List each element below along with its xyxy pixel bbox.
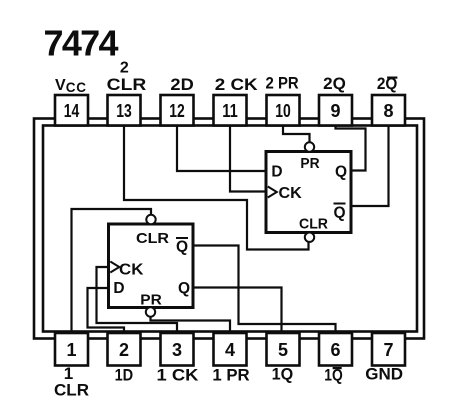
package outline [34, 119, 424, 339]
pin 4 [214, 333, 247, 366]
svg-text:1D: 1D [115, 366, 134, 385]
svg-text:7: 7 [383, 340, 393, 360]
pin label VCC [55, 77, 87, 95]
U2 PR bubble [305, 142, 314, 151]
svg-text:2D: 2D [170, 75, 193, 94]
svg-text:D: D [271, 164, 282, 181]
svg-text:CC: CC [66, 80, 87, 95]
svg-text:CLR: CLR [299, 216, 328, 233]
wire pin1 to FF1 CLR [72, 209, 152, 333]
pin 9 [319, 95, 352, 126]
pin 13 [108, 95, 141, 126]
svg-text:2 PR: 2 PR [266, 74, 299, 93]
wire pin10 to FF2 PR [283, 125, 310, 143]
svg-text:10: 10 [275, 101, 291, 121]
svg-text:1 CK: 1 CK [157, 366, 200, 385]
pin 6 [319, 333, 352, 366]
svg-text:1: 1 [66, 340, 76, 360]
svg-text:PR: PR [140, 292, 162, 309]
svg-text:D: D [113, 280, 124, 297]
flip-flop U1 body [109, 224, 194, 308]
U1 CLR bubble [146, 215, 155, 224]
svg-text:2Q: 2Q [323, 74, 346, 93]
wire pin13 to FF2 CLR [124, 125, 309, 250]
wire pin9 to FF2 Q [336, 125, 366, 171]
U1 PR bubble [146, 307, 155, 316]
svg-text:CLR: CLR [54, 381, 89, 400]
svg-text:7474: 7474 [44, 23, 119, 64]
pin 10 [267, 95, 300, 126]
U2 label Qbar [333, 204, 345, 222]
svg-text:12: 12 [169, 101, 185, 121]
svg-text:1Q: 1Q [272, 365, 294, 384]
U2 CLR bubble [305, 233, 314, 242]
IC body [43, 126, 417, 332]
flip-flop U2 body [266, 152, 351, 233]
svg-text:5: 5 [278, 340, 288, 360]
pin 12 [161, 95, 194, 126]
wire pin3 to FF1 CK [97, 267, 178, 333]
svg-text:PR: PR [300, 155, 319, 172]
svg-text:2 CK: 2 CK [215, 75, 259, 94]
pin 14 [55, 95, 88, 126]
svg-text:2: 2 [119, 340, 129, 360]
svg-text:13: 13 [116, 101, 132, 121]
wire pin8 to FF2 Qbar [352, 125, 389, 206]
svg-text:Q: Q [176, 239, 188, 256]
svg-text:6: 6 [330, 340, 340, 360]
svg-text:CK: CK [279, 185, 303, 202]
pin 1 [55, 333, 88, 366]
svg-text:Q: Q [335, 164, 347, 181]
svg-text:11: 11 [222, 101, 238, 121]
svg-text:14: 14 [64, 101, 80, 121]
pin label 2Qbar [377, 74, 398, 93]
wire FF1 Q to pin5 [193, 288, 282, 334]
pin 8 [372, 95, 405, 126]
wire pin2 to FF1 D [88, 288, 125, 333]
pin 2 [108, 333, 141, 366]
pin 7 [372, 333, 405, 366]
svg-text:1 PR: 1 PR [212, 366, 249, 385]
pin label 1Qbar [324, 366, 343, 385]
wire FF1 Qbar to pin6 [193, 246, 336, 334]
wire pin12 to FF2 D [177, 125, 265, 171]
wire pin11 to FF2 CK [230, 125, 265, 192]
svg-text:V: V [55, 77, 66, 94]
U1 label Qbar [176, 238, 188, 256]
svg-text:CK: CK [119, 262, 144, 279]
svg-text:GND: GND [365, 365, 403, 384]
U2 clock triangle [268, 187, 277, 198]
svg-text:2: 2 [120, 60, 129, 77]
svg-text:Q: Q [333, 205, 345, 222]
svg-text:CLR: CLR [107, 75, 147, 94]
wire FF1 PR to pin4 [151, 317, 231, 334]
svg-text:CLR: CLR [136, 230, 169, 247]
svg-text:8: 8 [383, 101, 393, 121]
pin 3 [161, 333, 194, 366]
svg-text:Q: Q [178, 280, 190, 297]
pin 5 [267, 333, 300, 366]
pin 11 [214, 95, 247, 126]
svg-text:3: 3 [172, 340, 182, 360]
svg-text:9: 9 [330, 101, 340, 121]
svg-text:4: 4 [225, 340, 235, 360]
U1 clock triangle [110, 262, 119, 273]
